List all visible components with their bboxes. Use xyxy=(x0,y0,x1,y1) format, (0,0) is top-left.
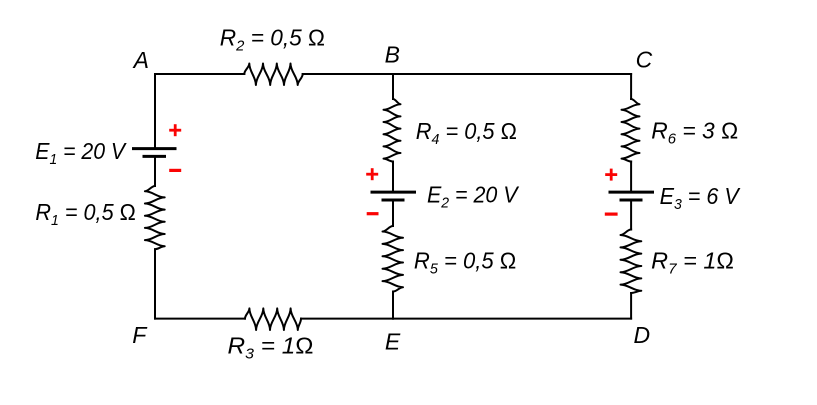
svg-text:R3 = 1Ω: R3 = 1Ω xyxy=(228,333,314,363)
svg-text:R1 = 0,5 Ω: R1 = 0,5 Ω xyxy=(35,199,135,229)
wire right R7 to D xyxy=(630,293,632,319)
svg-text:F: F xyxy=(132,322,148,348)
resistor R4 xyxy=(384,99,401,162)
polarity plus E2 xyxy=(366,173,378,176)
resistor R1 xyxy=(145,186,165,249)
wire right C to R6 xyxy=(630,74,632,99)
svg-text:A: A xyxy=(132,47,149,73)
resistor R5 xyxy=(383,226,404,292)
svg-text:E: E xyxy=(385,328,401,354)
polarity minus E3 xyxy=(605,213,618,216)
polarity plus E1 xyxy=(169,129,181,132)
wire middle R5 to E xyxy=(392,292,394,319)
wire middle E2 to R5 xyxy=(392,201,394,226)
battery E1 plates xyxy=(132,147,177,150)
battery E3 plates xyxy=(609,191,655,194)
polarity plus E3 xyxy=(605,173,617,176)
resistor R3 xyxy=(245,308,301,330)
svg-text:E3 = 6 V: E3 = 6 V xyxy=(660,183,742,213)
svg-text:D: D xyxy=(634,322,651,348)
battery E2 plates xyxy=(371,191,417,194)
wire top A-B left segment xyxy=(155,73,244,75)
wire top B-C segment xyxy=(393,73,631,75)
svg-text:E2 = 20 V: E2 = 20 V xyxy=(427,181,520,211)
svg-text:R2 = 0,5 Ω: R2 = 0,5 Ω xyxy=(220,25,325,55)
wire bottom F-E left segment xyxy=(155,318,245,320)
wire left A to E1 xyxy=(154,74,156,147)
wire middle B to R4 xyxy=(392,74,394,99)
polarity minus E2 xyxy=(367,212,379,215)
wire left R1 to F xyxy=(154,249,156,318)
svg-text:R4 = 0,5 Ω: R4 = 0,5 Ω xyxy=(416,118,517,148)
wire middle R4 to E2 xyxy=(392,162,394,191)
wire top B segment xyxy=(303,73,393,75)
resistor R6 xyxy=(622,99,640,162)
wire left E1 to R1 xyxy=(154,158,156,186)
wire bottom to E xyxy=(301,318,393,320)
wire right R6 to E3 xyxy=(630,162,632,191)
svg-text:R5 = 0,5 Ω: R5 = 0,5 Ω xyxy=(414,248,516,278)
svg-text:C: C xyxy=(636,47,653,73)
svg-text:E1 = 20 V: E1 = 20 V xyxy=(35,138,127,168)
wire bottom E-D segment xyxy=(393,318,631,320)
resistor R7 xyxy=(621,230,642,294)
wire right E3 to R7 xyxy=(630,201,632,229)
svg-text:R6 = 3 Ω: R6 = 3 Ω xyxy=(651,117,738,147)
svg-text:R7 = 1Ω: R7 = 1Ω xyxy=(651,247,734,277)
polarity minus E1 xyxy=(169,169,181,172)
svg-text:B: B xyxy=(385,42,400,68)
resistor R2 xyxy=(244,64,302,86)
